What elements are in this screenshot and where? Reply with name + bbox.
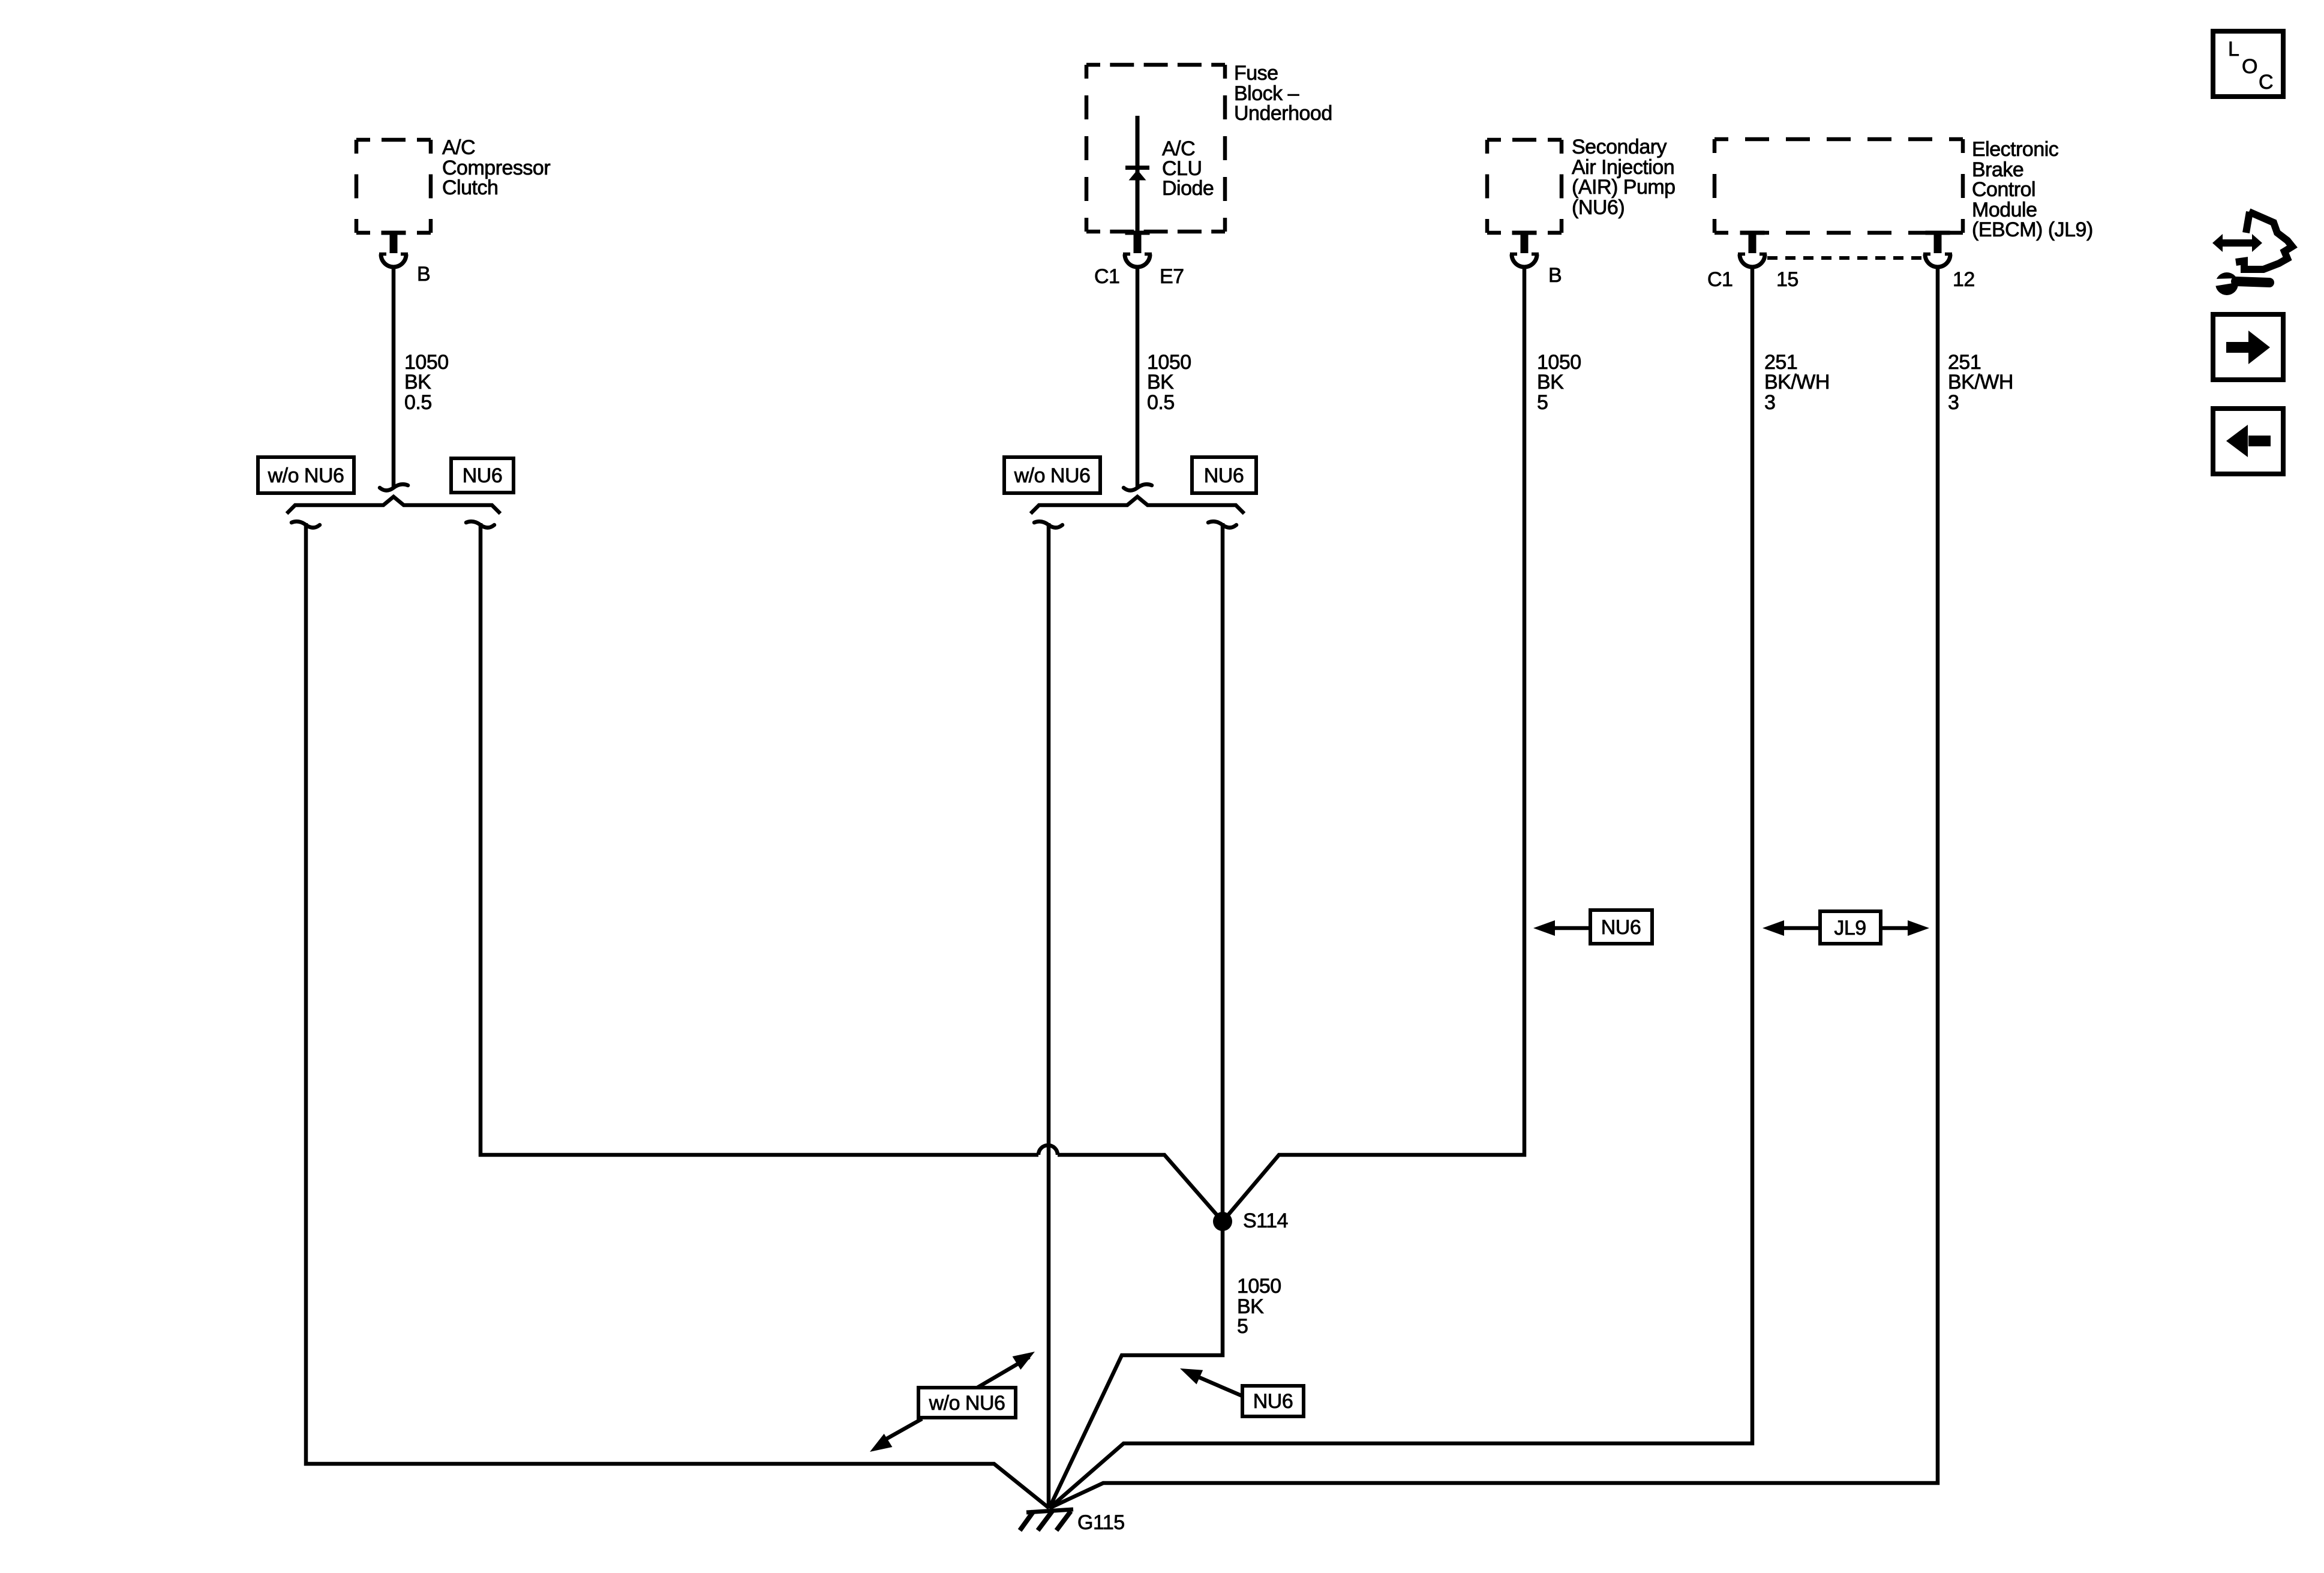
svg-text:(AIR) Pump: (AIR) Pump bbox=[1572, 176, 1676, 199]
svg-text:BK: BK bbox=[1537, 371, 1564, 394]
svg-text:B: B bbox=[417, 263, 430, 286]
svg-text:C1: C1 bbox=[1707, 268, 1733, 291]
svg-text:NU6: NU6 bbox=[463, 464, 503, 487]
svg-text:BK/WH: BK/WH bbox=[1764, 371, 1830, 394]
svg-text:Electronic: Electronic bbox=[1972, 138, 2059, 161]
svg-text:Control: Control bbox=[1972, 178, 2035, 201]
svg-text:L: L bbox=[2228, 38, 2239, 61]
svg-text:5: 5 bbox=[1237, 1315, 1248, 1338]
svg-text:B: B bbox=[1548, 264, 1562, 287]
svg-text:0.5: 0.5 bbox=[404, 391, 432, 414]
svg-text:NU6: NU6 bbox=[1204, 464, 1244, 487]
svg-text:Clutch: Clutch bbox=[442, 176, 498, 199]
svg-text:BK: BK bbox=[404, 371, 431, 394]
svg-text:3: 3 bbox=[1948, 391, 1959, 414]
svg-text:5: 5 bbox=[1537, 391, 1548, 414]
svg-text:C1: C1 bbox=[1094, 265, 1119, 288]
svg-text:12: 12 bbox=[1953, 268, 1975, 291]
svg-text:(EBCM) (JL9): (EBCM) (JL9) bbox=[1972, 218, 2093, 241]
svg-text:E7: E7 bbox=[1160, 265, 1184, 288]
svg-text:3: 3 bbox=[1764, 391, 1775, 414]
svg-text:JL9: JL9 bbox=[1834, 917, 1866, 939]
svg-text:w/o NU6: w/o NU6 bbox=[929, 1392, 1005, 1415]
svg-text:G115: G115 bbox=[1077, 1511, 1125, 1534]
svg-text:A/C: A/C bbox=[442, 136, 475, 159]
svg-text:Underhood: Underhood bbox=[1234, 102, 1332, 125]
svg-text:w/o NU6: w/o NU6 bbox=[1014, 464, 1091, 487]
svg-text:C: C bbox=[2259, 71, 2273, 94]
svg-text:1050: 1050 bbox=[1237, 1275, 1281, 1298]
svg-text:0.5: 0.5 bbox=[1147, 391, 1175, 414]
svg-text:O: O bbox=[2242, 55, 2257, 78]
svg-text:Secondary: Secondary bbox=[1572, 136, 1667, 158]
svg-text:BK: BK bbox=[1147, 371, 1174, 394]
svg-text:BK/WH: BK/WH bbox=[1948, 371, 2013, 394]
svg-text:Diode: Diode bbox=[1162, 177, 1214, 200]
svg-text:w/o NU6: w/o NU6 bbox=[268, 464, 344, 487]
svg-text:15: 15 bbox=[1776, 268, 1798, 291]
svg-text:NU6: NU6 bbox=[1601, 916, 1641, 939]
svg-text:NU6: NU6 bbox=[1253, 1390, 1293, 1413]
svg-text:(NU6): (NU6) bbox=[1572, 196, 1625, 219]
svg-text:Fuse: Fuse bbox=[1234, 62, 1278, 85]
svg-text:S114: S114 bbox=[1243, 1209, 1288, 1232]
